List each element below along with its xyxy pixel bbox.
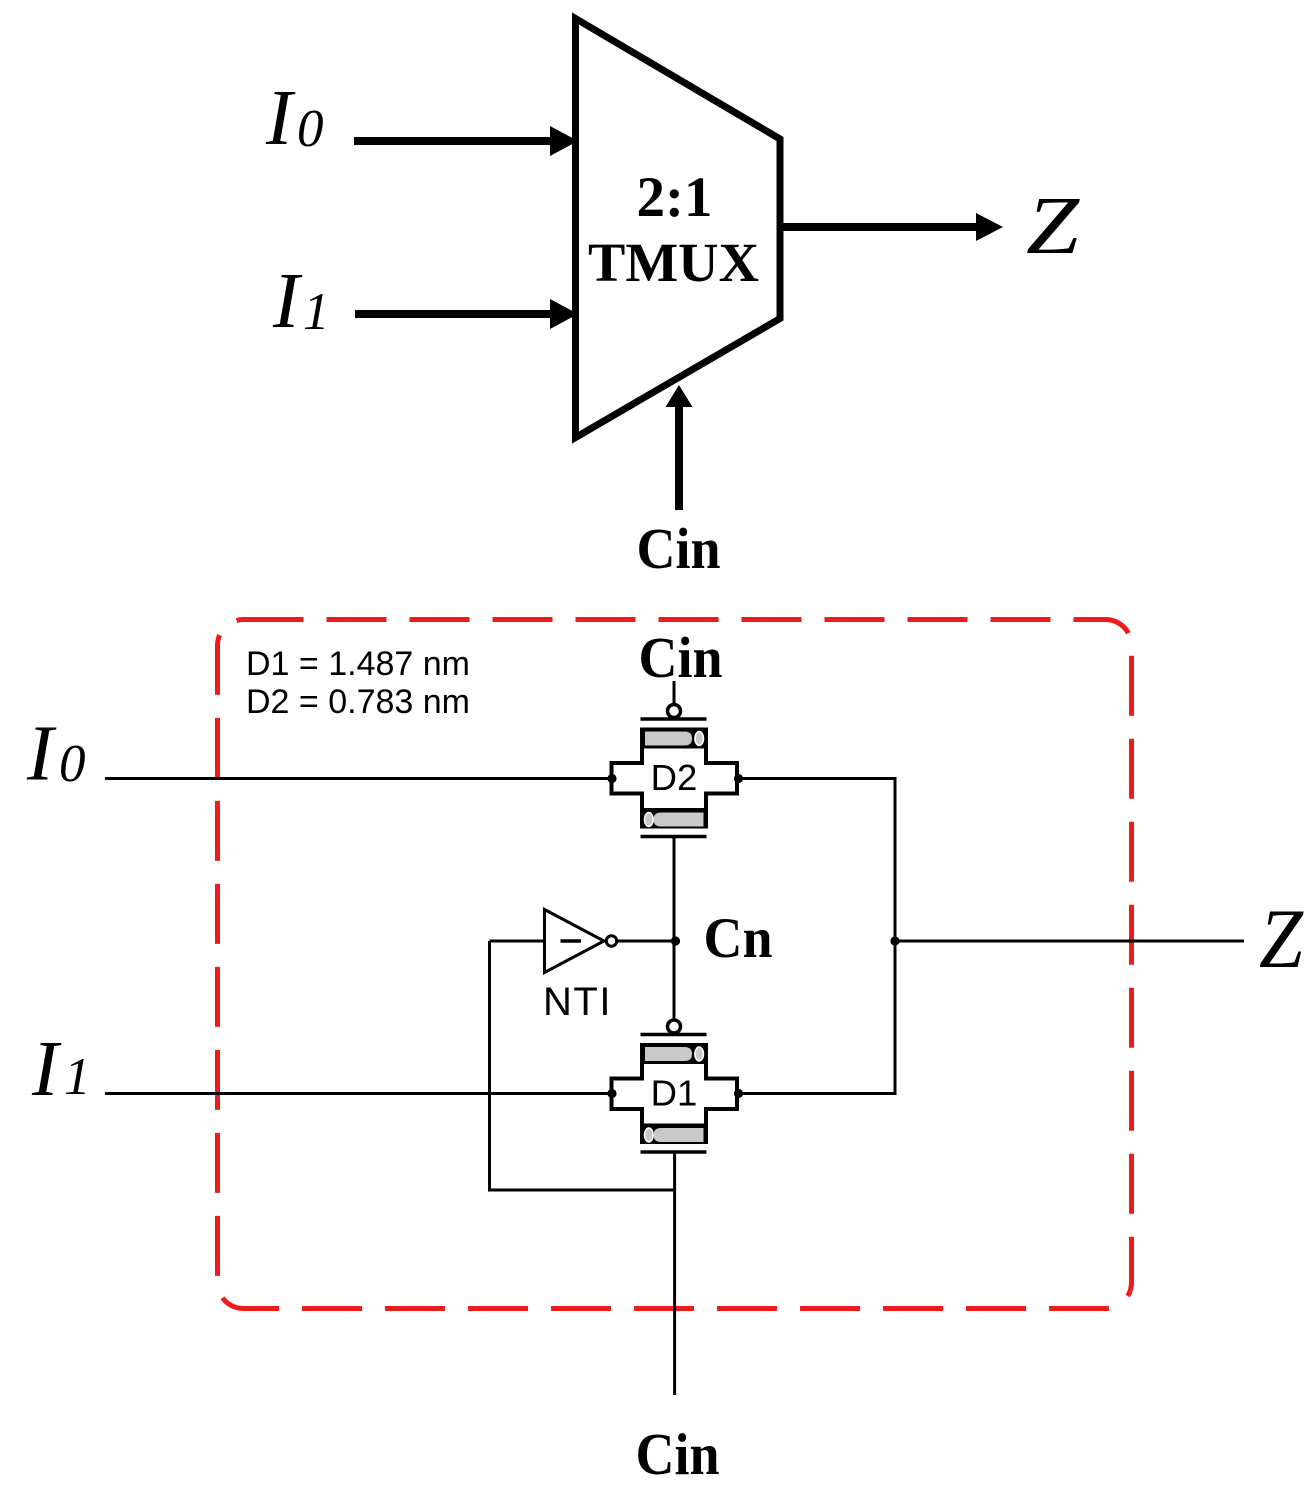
label I0 (schematic input) — [26, 711, 86, 798]
junction dot Cn — [671, 936, 680, 945]
dashed red enclosure — [218, 620, 1132, 1309]
svg-text:D1 = 1.487 nm: D1 = 1.487 nm — [246, 645, 470, 683]
output arrow Z — [783, 213, 1003, 241]
label I1 (block input) — [272, 258, 330, 345]
transmission gate D2 — [612, 705, 738, 837]
wire inverter input — [490, 940, 545, 943]
svg-text:NTI: NTI — [543, 980, 612, 1024]
svg-text:D2: D2 — [651, 757, 698, 798]
mux block U1 2:1 TMUX — [576, 19, 781, 438]
svg-text:I: I — [272, 258, 303, 345]
wire Z output — [895, 940, 1244, 943]
svg-text:I: I — [265, 75, 296, 162]
transmission gate D1 — [612, 1020, 738, 1152]
junction dot right of D2 — [734, 774, 743, 783]
wire I0 — [105, 777, 612, 780]
svg-text:D2 = 0.783 nm: D2 = 0.783 nm — [246, 683, 470, 721]
svg-text:I: I — [31, 1026, 62, 1113]
svg-text:Z: Z — [1026, 179, 1080, 271]
svg-text:Cin: Cin — [636, 1421, 720, 1487]
junction dot left of D1 — [607, 1089, 616, 1098]
svg-text:Z: Z — [1259, 892, 1304, 986]
wire inverter output to Cn — [617, 940, 674, 943]
svg-text:1: 1 — [64, 1048, 91, 1106]
wire D1 to right bus — [737, 1092, 897, 1095]
junction dot right of D1 — [734, 1089, 743, 1098]
svg-text:TMUX: TMUX — [588, 232, 759, 293]
svg-text:Cn: Cn — [704, 907, 773, 970]
wire Cin to D2 gate — [673, 681, 676, 705]
junction dot Z tap — [890, 936, 899, 945]
feedback wire to bottom Cin — [490, 941, 675, 1190]
svg-text:Cin: Cin — [637, 516, 721, 581]
svg-text:0: 0 — [59, 735, 86, 793]
svg-text:1: 1 — [303, 283, 330, 341]
right bus wire — [894, 777, 897, 1095]
svg-text:2:1: 2:1 — [637, 166, 713, 229]
inverter NTI — [545, 910, 617, 973]
svg-text:I: I — [26, 711, 57, 798]
select arrow Cin — [666, 385, 693, 510]
junction dot left of D2 — [607, 774, 616, 783]
label I0 (block input) — [265, 75, 324, 162]
input arrow I1 — [355, 299, 578, 329]
svg-text:D1: D1 — [651, 1073, 698, 1114]
input arrow I0 — [354, 126, 578, 156]
wire Cin bottom — [673, 1154, 676, 1396]
label I1 (schematic input) — [31, 1026, 91, 1113]
wire Cn vertical — [673, 838, 676, 1020]
wire I1 — [105, 1092, 612, 1095]
svg-text:Cin: Cin — [639, 625, 723, 690]
wire D2 to right bus — [737, 777, 897, 780]
svg-text:0: 0 — [297, 100, 324, 158]
